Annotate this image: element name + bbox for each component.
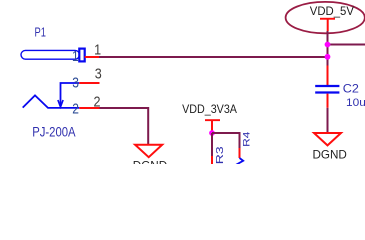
svg-text:DGND: DGND (133, 158, 168, 164)
power port VDD_5V ellipse (286, 2, 365, 33)
junction dot lower (325, 54, 331, 60)
svg-text:C2: C2 (343, 82, 359, 96)
ground symbol DGND (right) (314, 133, 341, 145)
junction dot 3V3A (209, 130, 215, 136)
power bar symbol VDD_3V3A (205, 119, 220, 121)
switch zigzag lever of jack (23, 95, 80, 108)
svg-text:2: 2 (72, 100, 79, 117)
svg-text:10uF: 10uF (346, 97, 365, 109)
svg-text:R3: R3 (214, 146, 226, 164)
capacitor C2 top pin (red) (327, 66, 329, 86)
capacitor C2 bottom pin (red) (327, 94, 329, 108)
wire vertical from VDD_5V to C2 (327, 31, 329, 66)
svg-text:3: 3 (72, 74, 79, 91)
svg-text:3: 3 (95, 65, 102, 81)
svg-text:R4: R4 (242, 131, 252, 146)
resistor R4 pin (red) (239, 148, 241, 158)
wire net VDD_5V long horizontal (99, 56, 328, 58)
switch pin3 branch with arrow (61, 83, 80, 106)
svg-text:PJ-200A: PJ-200A (32, 124, 76, 139)
wire net pin2 to DGND (100, 108, 149, 144)
connector P1 tip contact rectangle (79, 49, 84, 62)
svg-text:2: 2 (94, 94, 101, 110)
resistor R3 pin (red, clipped) (211, 156, 213, 165)
arrowhead (58, 100, 63, 107)
svg-text:P1: P1 (35, 26, 46, 40)
svg-text:DGND: DGND (313, 147, 348, 161)
resistor R4 zigzag (clipped) (236, 158, 243, 165)
ground symbol DGND (left) (135, 145, 162, 158)
svg-text:VDD_5V: VDD_5V (310, 5, 354, 18)
wire to R4 (212, 133, 240, 148)
svg-text:VDD_3V3A: VDD_3V3A (182, 103, 237, 116)
connector P1 barrel (pill body) (21, 50, 80, 59)
pin 2 stub (red) (79, 107, 99, 109)
svg-text:1: 1 (94, 42, 101, 58)
power bar symbol VDD_5V (320, 18, 335, 20)
junction dot upper (325, 42, 331, 48)
pin 1 stub (red) (85, 56, 99, 58)
svg-text:1: 1 (72, 48, 79, 65)
wire C2 to DGND (327, 108, 329, 133)
wire to R3 (211, 133, 213, 156)
pin 3 stub (red) (79, 82, 99, 84)
capacitor C2 plates (315, 85, 339, 87)
wire branch to right edge (328, 44, 365, 46)
